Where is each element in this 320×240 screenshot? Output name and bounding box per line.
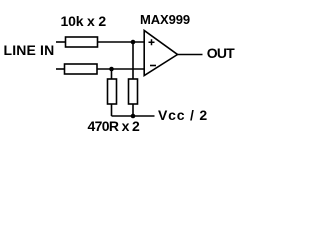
wire bottom rail to Vcc/2 [112, 115, 155, 117]
svg-text:10k x 2: 10k x 2 [61, 13, 107, 29]
op-amp + input marking [149, 39, 155, 45]
resistor R4 470R (right) [129, 79, 138, 104]
svg-text:Vcc / 2: Vcc / 2 [158, 107, 208, 123]
svg-text:470R x 2: 470R x 2 [88, 118, 140, 134]
wire left resistor bottom stub [111, 104, 113, 116]
svg-text:OUT: OUT [207, 45, 235, 61]
node junction top row [131, 40, 136, 45]
op-amp U1 MAX999 [144, 31, 177, 76]
op-amp - input marking [150, 65, 156, 67]
wire bottom row input stub [56, 68, 65, 70]
node junction bottom row [109, 67, 114, 72]
resistor R2 10k (bottom) [65, 64, 98, 74]
wire bottom row to op-amp - input [97, 68, 144, 70]
wire right vertical branch (crosses bottom row) [132, 42, 134, 79]
wire top row to op-amp + input [98, 41, 145, 43]
wire top row input stub [56, 41, 66, 43]
resistor R3 470R (left) [108, 79, 117, 104]
wire output [178, 54, 203, 56]
resistor R1 10k (top) [66, 37, 98, 47]
wire right resistor bottom stub [132, 104, 134, 116]
node junction bottom rail [131, 114, 136, 119]
svg-text:LINE IN: LINE IN [4, 42, 55, 58]
wire left vertical branch [111, 69, 113, 79]
svg-text:MAX999: MAX999 [140, 12, 190, 27]
